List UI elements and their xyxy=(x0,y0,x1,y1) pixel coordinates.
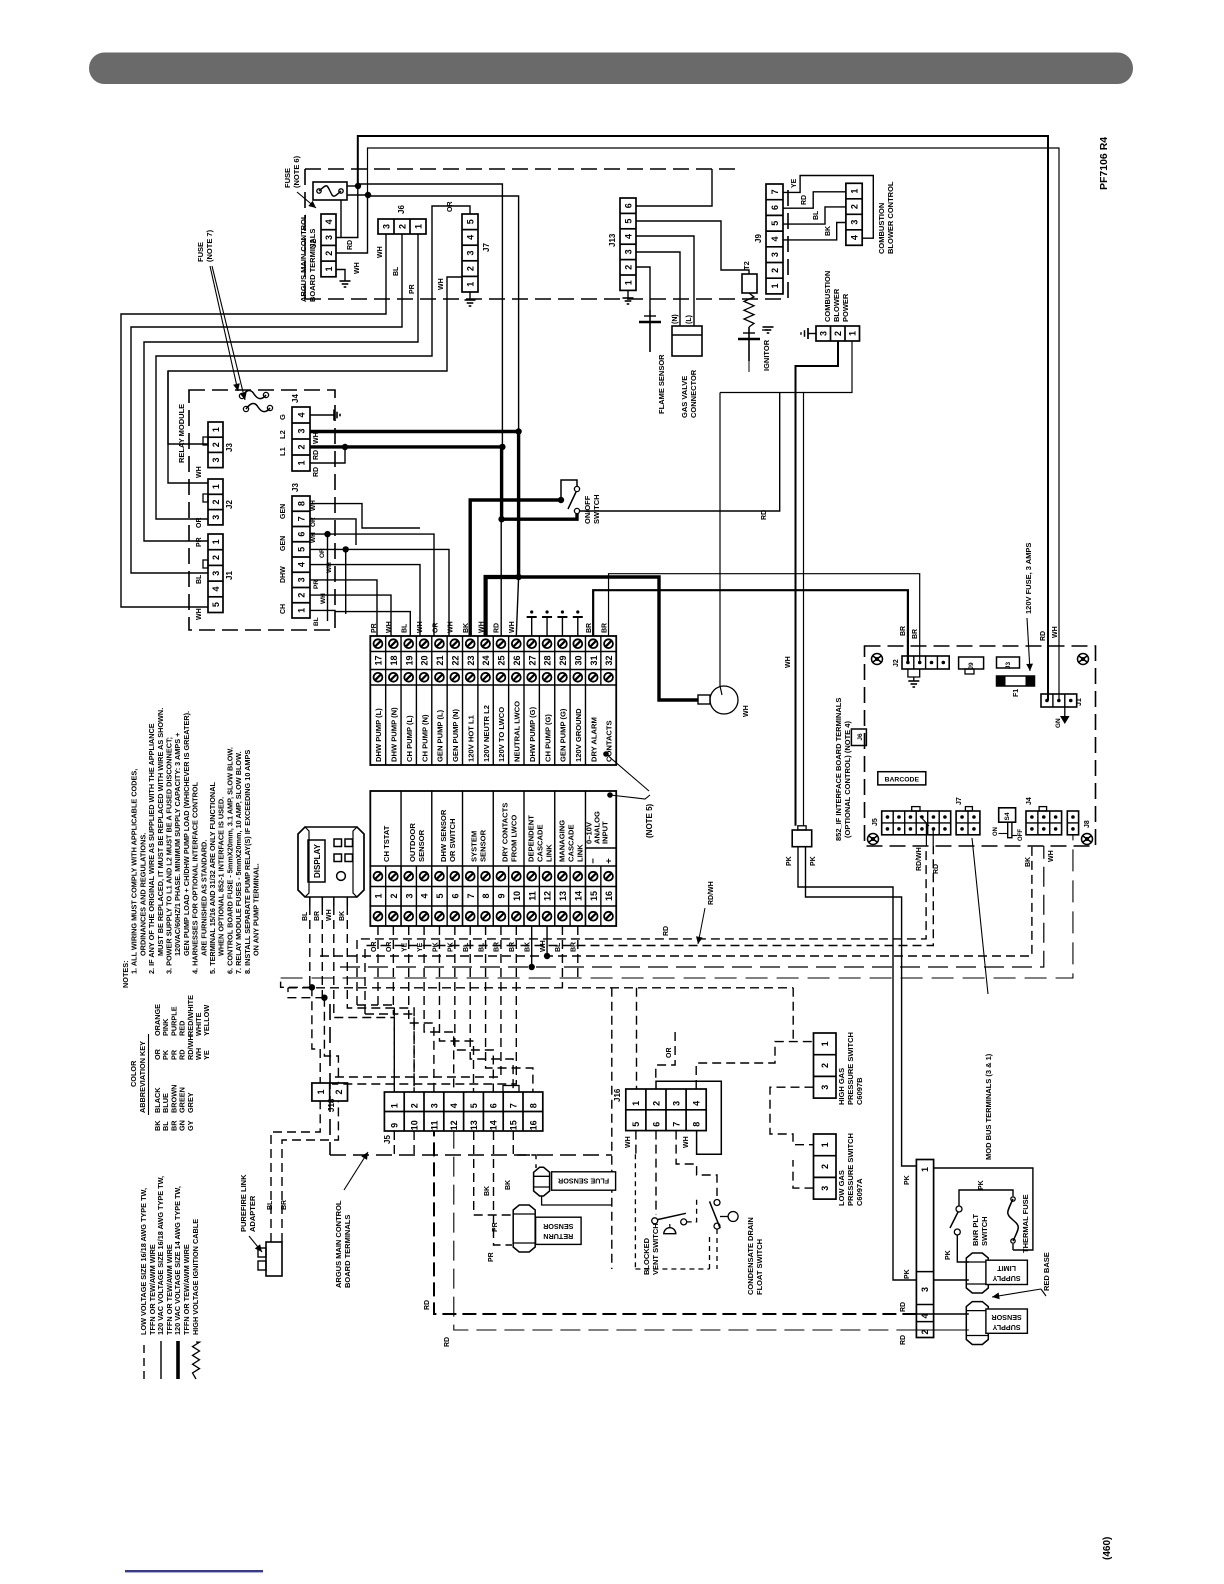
svg-text:852_IF INTERFACE BOARD TERMINA: 852_IF INTERFACE BOARD TERMINALS xyxy=(834,698,843,841)
svg-text:5: 5 xyxy=(623,219,633,224)
svg-text:MUST BE REPLACED, IT MUST BE R: MUST BE REPLACED, IT MUST BE REPLACED WI… xyxy=(156,708,165,956)
svg-text:16: 16 xyxy=(604,891,614,901)
svg-text:3: 3 xyxy=(849,220,859,225)
net dashed RD/WH xyxy=(357,846,926,1005)
wire neutral distribution (thick) to receptacle xyxy=(519,577,698,700)
splice PK xyxy=(798,826,806,830)
svg-text:6: 6 xyxy=(489,1103,499,1108)
svg-text:1: 1 xyxy=(374,893,384,898)
connector J7 main board xyxy=(462,214,478,292)
leader (NOTE 5) xyxy=(606,754,649,791)
svg-text:PR: PR xyxy=(196,537,203,547)
svg-text:26: 26 xyxy=(512,655,522,665)
terminal label 0-10V ANALOG INPUT xyxy=(584,791,586,926)
svg-text:RD: RD xyxy=(801,195,808,205)
wire 120V run top B (to interface J1) xyxy=(368,148,1060,701)
svg-text:RD: RD xyxy=(494,623,501,633)
display buttons xyxy=(334,839,342,847)
svg-text:5: 5 xyxy=(296,547,306,552)
net dashed RD xyxy=(365,846,933,1014)
wire switch load side (RD) to ignition riser xyxy=(580,393,780,512)
svg-text:5: 5 xyxy=(465,219,475,224)
wire J6 pin3 WH xyxy=(121,234,386,607)
svg-text:8: 8 xyxy=(528,1103,538,1108)
svg-text:(460): (460) xyxy=(1102,1537,1113,1560)
leader MOD BUS to J7 interface xyxy=(972,838,988,994)
wire low gas switch pin3 xyxy=(793,1160,814,1188)
connector high gas pressure switch xyxy=(814,1033,837,1098)
svg-text:8. INSTALL SEPARATE PUMP RELA: 8. INSTALL SEPARATE PUMP RELAY(S) IF EXC… xyxy=(243,750,252,974)
svg-text:10: 10 xyxy=(512,891,522,901)
svg-text:7. RELAY MODULE FUSES - 5mmX2: 7. RELAY MODULE FUSES - 5mmX20mm, 10 AMP… xyxy=(234,751,243,974)
svg-text:13: 13 xyxy=(558,891,568,901)
svg-text:PK: PK xyxy=(904,1269,911,1279)
svg-text:DEPENDENT: DEPENDENT xyxy=(527,815,536,862)
svg-text:WH: WH xyxy=(743,705,750,717)
svg-text:J18: J18 xyxy=(327,1098,336,1112)
svg-text:J8: J8 xyxy=(1084,820,1091,828)
svg-text:J3: J3 xyxy=(291,483,300,492)
svg-text:3: 3 xyxy=(920,1287,930,1292)
svg-text:4: 4 xyxy=(296,412,306,417)
wire to high gas switch via J16 pin4 xyxy=(696,1042,813,1089)
svg-text:WH: WH xyxy=(354,262,361,274)
wire BL net to J18.1 xyxy=(312,987,320,1083)
svg-text:BK: BK xyxy=(339,911,346,921)
node dry alarm A xyxy=(603,751,609,757)
wire RD/WH into J5 interface xyxy=(925,823,927,846)
wire BR terminal 32 to interface J2 pin2 xyxy=(609,574,920,663)
wire J16 pin7 to condensate switch xyxy=(676,1131,717,1196)
connector combustion blower power xyxy=(816,326,860,341)
svg-text:PK: PK xyxy=(978,1180,985,1190)
svg-text:4: 4 xyxy=(692,1101,702,1106)
supply sensor xyxy=(966,1302,988,1345)
svg-text:10: 10 xyxy=(410,1120,420,1130)
svg-text:1: 1 xyxy=(920,1167,930,1172)
terminal strip 17-32 xyxy=(370,636,616,765)
svg-text:BK: BK xyxy=(524,942,531,952)
svg-text:ORDINANCES AND REGULATIONS.: ORDINANCES AND REGULATIONS. xyxy=(138,833,147,956)
wires lower strip to J5 (staircase) xyxy=(357,1004,378,1006)
wire blocked vent circle2 xyxy=(687,1199,697,1222)
leader purefire xyxy=(249,1236,262,1252)
wire col 12 WH to net xyxy=(546,926,548,956)
svg-text:RD: RD xyxy=(900,1335,907,1345)
wire display BK to J5 xyxy=(347,906,414,1092)
svg-text:COMBUSTION: COMBUSTION xyxy=(877,203,886,254)
svg-text:6: 6 xyxy=(296,532,306,537)
svg-text:CH: CH xyxy=(280,604,287,614)
svg-text:OR: OR xyxy=(432,623,439,634)
svg-text:BR: BR xyxy=(509,942,516,952)
svg-text:22: 22 xyxy=(450,655,460,665)
svg-text:WH: WH xyxy=(438,278,445,290)
svg-text:CH PUMP (N): CH PUMP (N) xyxy=(420,714,429,762)
svg-text:SUPPLY: SUPPLY xyxy=(992,1323,1020,1332)
svg-text:PK: PK xyxy=(786,856,793,866)
svg-text:SWITCH: SWITCH xyxy=(980,1216,989,1246)
svg-text:2: 2 xyxy=(820,1063,830,1068)
svg-text:SENSOR: SENSOR xyxy=(991,1313,1022,1322)
svg-text:OR: OR xyxy=(666,1048,673,1059)
svg-text:J6: J6 xyxy=(857,733,864,741)
svg-text:3: 3 xyxy=(671,1101,681,1106)
svg-text:2: 2 xyxy=(410,1103,420,1108)
svg-text:L2: L2 xyxy=(278,430,287,439)
svg-text:3: 3 xyxy=(211,457,221,462)
svg-text:WH: WH xyxy=(509,621,516,633)
svg-text:BL: BL xyxy=(196,574,203,584)
svg-text:PK: PK xyxy=(945,1250,952,1260)
svg-text:VENT SWITCH: VENT SWITCH xyxy=(651,1223,660,1275)
svg-text:6: 6 xyxy=(450,893,460,898)
svg-text:S4: S4 xyxy=(1004,812,1011,820)
svg-text:WH: WH xyxy=(313,432,320,444)
connector low gas pressure switch xyxy=(814,1134,837,1199)
svg-text:120VAC/60HZ/1 PHASE. MINIMUM S: 120VAC/60HZ/1 PHASE. MINIMUM SUPPLY CAPA… xyxy=(173,733,182,956)
svg-text:27: 27 xyxy=(527,655,537,665)
svg-text:J2: J2 xyxy=(225,500,234,509)
svg-text:YE: YE xyxy=(417,942,424,952)
label box FLUE SENSOR xyxy=(552,1172,616,1190)
label box SUPPLY SENSOR xyxy=(986,1309,1028,1333)
svg-text:ON/OFF: ON/OFF xyxy=(583,495,592,524)
svg-text:DHW SENSOR: DHW SENSOR xyxy=(439,809,448,862)
svg-text:21: 21 xyxy=(435,655,445,665)
wire J9 pin4 BK to CBC pin3 xyxy=(783,223,846,240)
svg-text:(NOTE 7): (NOTE 7) xyxy=(205,229,214,262)
wire neutral link to terminal 24 (thick) xyxy=(486,577,519,636)
wire J3.4 WH to terminal 20 xyxy=(310,565,420,636)
svg-text:G: G xyxy=(278,414,287,420)
svg-text:24: 24 xyxy=(481,655,491,665)
terminal strip 1-16 xyxy=(370,791,616,926)
ground J2 pin1 xyxy=(336,270,345,282)
svg-text:PRESSURE SWITCH: PRESSURE SWITCH xyxy=(846,1133,855,1206)
node fused/L1 xyxy=(499,444,505,450)
wire net to J16 pin1 xyxy=(636,988,638,1089)
wire type legend xyxy=(139,1176,200,1379)
svg-text:GAS VALVE: GAS VALVE xyxy=(680,376,689,418)
svg-text:6: 6 xyxy=(651,1122,661,1127)
svg-text:DHW PUMP (L): DHW PUMP (L) xyxy=(374,708,383,762)
connector J18 xyxy=(312,1083,348,1101)
ground J4 pin4 xyxy=(310,414,334,416)
svg-text:GEN PUMP LOAD + CH/DHW PUMP LO: GEN PUMP LOAD + CH/DHW PUMP LOAD (WHICHE… xyxy=(182,711,191,956)
svg-text:3: 3 xyxy=(429,1103,439,1108)
svg-text:GEN PUMP (G): GEN PUMP (G) xyxy=(559,708,568,762)
flue sensor xyxy=(534,1167,550,1196)
svg-text:SUPPLY: SUPPLY xyxy=(992,1274,1020,1283)
ground J7 pin1 xyxy=(469,292,471,300)
svg-text:2: 2 xyxy=(211,442,221,447)
high voltage ignition cable (zigzag) xyxy=(744,293,754,327)
node col12/net xyxy=(544,953,550,959)
svg-text:F1: F1 xyxy=(1013,689,1020,697)
terminal screws and numbers 1-16 xyxy=(370,865,616,867)
svg-text:LIMIT: LIMIT xyxy=(997,1264,1016,1273)
svg-text:OR SWITCH: OR SWITCH xyxy=(448,819,457,862)
svg-text:ON: ON xyxy=(993,827,999,836)
svg-text:PR: PR xyxy=(488,1252,495,1262)
connector J5 interface xyxy=(882,811,951,835)
svg-text:C6097A: C6097A xyxy=(855,1178,864,1206)
svg-text:11: 11 xyxy=(429,1121,439,1131)
wire J3.3 PR to terminal 17 xyxy=(310,580,377,636)
svg-text:HIGH VOLTAGE IGNITION CABLE: HIGH VOLTAGE IGNITION CABLE xyxy=(191,1219,200,1335)
svg-text:BL: BL xyxy=(313,617,320,626)
svg-text:BLOWER: BLOWER xyxy=(832,288,841,322)
boundary dashed right (J16) xyxy=(792,988,794,1042)
svg-text:PR: PR xyxy=(492,1222,499,1232)
svg-text:12: 12 xyxy=(543,891,553,901)
connector J6 main board xyxy=(378,219,426,234)
svg-text:YE: YE xyxy=(791,178,798,188)
svg-text:4: 4 xyxy=(211,586,221,591)
svg-text:ON ANY PUMP TERMINAL.: ON ANY PUMP TERMINAL. xyxy=(252,863,261,956)
svg-text:BL: BL xyxy=(402,623,409,633)
svg-text:WH: WH xyxy=(386,621,393,633)
wire neutral thin to terminal 26 xyxy=(516,577,518,636)
svg-text:COMBUSTION: COMBUSTION xyxy=(823,271,832,322)
connector J3 relay xyxy=(208,422,223,468)
svg-text:FLUE SENSOR: FLUE SENSOR xyxy=(557,1176,609,1185)
node fuse output B xyxy=(365,192,371,198)
svg-text:18: 18 xyxy=(389,655,399,665)
svg-text:BR: BR xyxy=(314,911,321,921)
ignitor xyxy=(748,327,750,361)
svg-text:FLOAT SWITCH: FLOAT SWITCH xyxy=(755,1239,764,1295)
connector J6 interface xyxy=(851,729,866,746)
svg-text:120 VAC VOLTAGE SIZE 14 AWG TY: 120 VAC VOLTAGE SIZE 14 AWG TYPE TW, xyxy=(173,1186,182,1335)
svg-text:RD: RD xyxy=(424,1300,431,1310)
svg-text:3: 3 xyxy=(820,1186,830,1191)
svg-text:30: 30 xyxy=(573,655,583,665)
svg-text:2: 2 xyxy=(397,224,407,229)
svg-text:BK: BK xyxy=(463,623,470,633)
svg-text:HIGH GAS: HIGH GAS xyxy=(837,1068,846,1105)
wire mod bus 3 to supply limit xyxy=(934,1279,969,1281)
svg-text:OR: OR xyxy=(447,202,454,213)
svg-text:7: 7 xyxy=(509,1103,519,1108)
svg-text:5: 5 xyxy=(211,602,221,607)
wire J13 pin6 xyxy=(636,169,712,206)
wire mod bus 4 (RD dashed) xyxy=(434,1131,916,1314)
svg-text:BR: BR xyxy=(900,626,907,636)
svg-text:OR: OR xyxy=(196,518,203,529)
alarm receptacle xyxy=(698,695,710,704)
svg-text:3: 3 xyxy=(324,235,334,240)
connector J8 interface xyxy=(1067,811,1078,835)
wire J2 pin2 (WH) xyxy=(336,196,368,253)
svg-text:J16: J16 xyxy=(613,1088,622,1102)
svg-text:120 VAC VOLTAGE SIZE 16/18 AWG: 120 VAC VOLTAGE SIZE 16/18 AWG TYPE TW, xyxy=(156,1176,165,1335)
wire col 14 BR xyxy=(577,926,579,978)
net dashed BK xyxy=(320,846,1032,956)
svg-text:3: 3 xyxy=(623,249,633,254)
svg-text:5: 5 xyxy=(469,1103,479,1108)
svg-text:FUSE: FUSE xyxy=(196,242,205,262)
footer blue rule xyxy=(125,1570,263,1572)
wire J5.10 down xyxy=(413,1131,415,1155)
svg-text:BK: BK xyxy=(505,1180,512,1190)
wire J3.1 BL to terminal 19 xyxy=(310,610,410,636)
svg-text:8: 8 xyxy=(296,501,306,506)
svg-text:J1: J1 xyxy=(225,571,234,580)
connector J3 main board xyxy=(292,496,310,618)
boundary dashed (J16 circuits) xyxy=(288,987,793,989)
svg-text:LINK: LINK xyxy=(575,844,584,862)
svg-text:CH PUMP (G): CH PUMP (G) xyxy=(543,714,552,762)
svg-text:3: 3 xyxy=(404,893,414,898)
svg-text:WH: WH xyxy=(196,466,203,478)
ground ignitor xyxy=(762,329,768,331)
svg-text:PK: PK xyxy=(810,856,817,866)
ground combustion blower power xyxy=(808,333,816,335)
svg-text:5: 5 xyxy=(435,893,445,898)
svg-text:LOW GAS: LOW GAS xyxy=(837,1170,846,1206)
wire J16 pin5 down xyxy=(635,1131,637,1155)
svg-text:ABBREVIATION KEY: ABBREVIATION KEY xyxy=(138,1041,147,1113)
wire J2 pin3 to fuse xyxy=(336,184,358,238)
svg-text:23: 23 xyxy=(466,655,476,665)
svg-text:15: 15 xyxy=(509,1120,519,1130)
ground interface J1 (GN) xyxy=(1064,707,1066,716)
svg-text:4: 4 xyxy=(420,893,430,898)
svg-text:RD/WH: RD/WH xyxy=(916,847,923,871)
connector J4 main board xyxy=(292,407,310,471)
svg-text:1: 1 xyxy=(390,1103,400,1108)
svg-text:PR: PR xyxy=(409,284,416,294)
svg-text:CONNECTOR: CONNECTOR xyxy=(689,369,698,418)
svg-text:7: 7 xyxy=(770,189,780,194)
node L2/neutral junction xyxy=(515,574,521,580)
terminal label DRY ALARM CONTACTS xyxy=(584,685,586,765)
mod bus terminal strip xyxy=(916,1160,933,1338)
svg-text:(N): (N) xyxy=(672,314,679,324)
svg-text:INPUT: INPUT xyxy=(601,821,610,844)
svg-text:PUREFIRE LINK: PUREFIRE LINK xyxy=(239,1174,248,1232)
svg-text:PK: PK xyxy=(448,942,455,952)
node col11/net xyxy=(528,964,534,970)
svg-text:J5: J5 xyxy=(383,1135,392,1144)
wire J3.8 WH xyxy=(310,504,420,528)
svg-text:SENSOR: SENSOR xyxy=(417,829,426,862)
svg-text:ARE FURNISHED AS STANDARD.: ARE FURNISHED AS STANDARD. xyxy=(199,840,208,956)
node display BR xyxy=(321,995,327,1001)
svg-text:GEN: GEN xyxy=(280,504,287,519)
node L1/switch junction xyxy=(498,516,504,522)
wire J16 pin6 to blocked vent switch xyxy=(655,1131,657,1215)
blocked vent switch xyxy=(652,1218,658,1224)
svg-text:1: 1 xyxy=(770,284,780,289)
svg-text:BARCODE: BARCODE xyxy=(885,777,920,784)
svg-text:RD: RD xyxy=(900,1302,907,1312)
svg-text:2: 2 xyxy=(211,555,221,560)
svg-text:BR: BR xyxy=(571,942,578,952)
svg-text:11: 11 xyxy=(527,891,537,901)
svg-text:2: 2 xyxy=(623,265,633,270)
svg-text:YELLOW: YELLOW xyxy=(202,1005,211,1036)
svg-text:J13: J13 xyxy=(608,233,617,247)
wire J6 pin2 BL xyxy=(131,234,402,573)
svg-text:3: 3 xyxy=(211,571,221,576)
svg-text:BR: BR xyxy=(586,623,593,633)
wire J4 pin1 to L1 xyxy=(310,447,345,463)
svg-text:GN: GN xyxy=(1055,718,1062,728)
node dry alarm B xyxy=(607,792,613,798)
svg-text:OFF: OFF xyxy=(1018,829,1024,841)
svg-text:120V FUSE, 3 AMPS: 120V FUSE, 3 AMPS xyxy=(1024,543,1033,614)
svg-text:3: 3 xyxy=(381,224,391,229)
svg-text:FLAME SENSOR: FLAME SENSOR xyxy=(657,354,666,414)
bnr plt switch xyxy=(956,1206,962,1212)
svg-text:20: 20 xyxy=(420,655,430,665)
wire J16 jumper pins 2-8 (solid) xyxy=(656,1081,721,1154)
svg-text:MOD BUS TERMINALS (3 & 1): MOD BUS TERMINALS (3 & 1) xyxy=(984,1053,993,1160)
svg-text:J4: J4 xyxy=(291,394,300,403)
wire condensate bottom xyxy=(716,1229,718,1269)
svg-text:4: 4 xyxy=(849,235,859,240)
svg-text:2: 2 xyxy=(296,444,306,449)
svg-text:BK: BK xyxy=(1025,857,1032,867)
svg-text:7: 7 xyxy=(296,516,306,521)
svg-text:4: 4 xyxy=(296,562,306,567)
net dashed aux xyxy=(281,835,1073,978)
leader to fuse F (note 6) xyxy=(297,192,316,208)
leader 120V fuse xyxy=(1027,618,1030,671)
svg-text:TFFN OR TEW/AWM WIRE: TFFN OR TEW/AWM WIRE xyxy=(182,1244,191,1335)
wire col 11 BK to net xyxy=(531,926,533,967)
connector J2 main board xyxy=(321,214,336,277)
wires cols 9-14 to nets xyxy=(332,926,501,1077)
svg-text:BL: BL xyxy=(393,266,400,276)
svg-text:32: 32 xyxy=(604,655,614,665)
svg-text:THERMAL FUSE: THERMAL FUSE xyxy=(1021,1194,1030,1253)
svg-text:4: 4 xyxy=(465,235,475,240)
svg-text:8: 8 xyxy=(692,1122,702,1127)
svg-text:GEN: GEN xyxy=(280,536,287,551)
flame sensor xyxy=(649,310,651,352)
on/off switch xyxy=(561,480,577,500)
svg-text:PK: PK xyxy=(904,1175,911,1185)
node fuse output A xyxy=(355,183,361,189)
svg-text:DHW: DHW xyxy=(280,566,287,583)
leader red base xyxy=(1041,1289,1046,1296)
svg-text:15: 15 xyxy=(589,891,599,901)
svg-text:5: 5 xyxy=(631,1122,641,1127)
wire OR to J16 pin2 xyxy=(656,1032,675,1081)
wire J7 pin2 WH xyxy=(168,277,462,483)
wire J9 pin7 YE to CBC pin4 xyxy=(783,176,873,239)
svg-text:2: 2 xyxy=(820,1164,830,1169)
display pins xyxy=(309,897,311,906)
boundary ARGUS main control board (dashed) xyxy=(305,168,742,170)
net dashed WH xyxy=(340,846,1044,967)
notes text xyxy=(121,708,261,988)
wire fused feed down to L1 run xyxy=(358,184,503,447)
svg-text:1: 1 xyxy=(211,484,221,489)
svg-text:J3: J3 xyxy=(225,443,234,452)
svg-text:31: 31 xyxy=(589,655,599,665)
wire J13 pin3 to gas valve (N) xyxy=(636,252,680,326)
svg-text:WHEN OPTIONAL 852-1 INTERFACE: WHEN OPTIONAL 852-1 INTERFACE IS USED. xyxy=(217,797,226,956)
connector J1 relay xyxy=(208,534,223,613)
svg-text:8: 8 xyxy=(481,893,491,898)
svg-text:WH: WH xyxy=(377,246,384,258)
svg-text:CONDENSATE DRAIN: CONDENSATE DRAIN xyxy=(746,1217,755,1295)
